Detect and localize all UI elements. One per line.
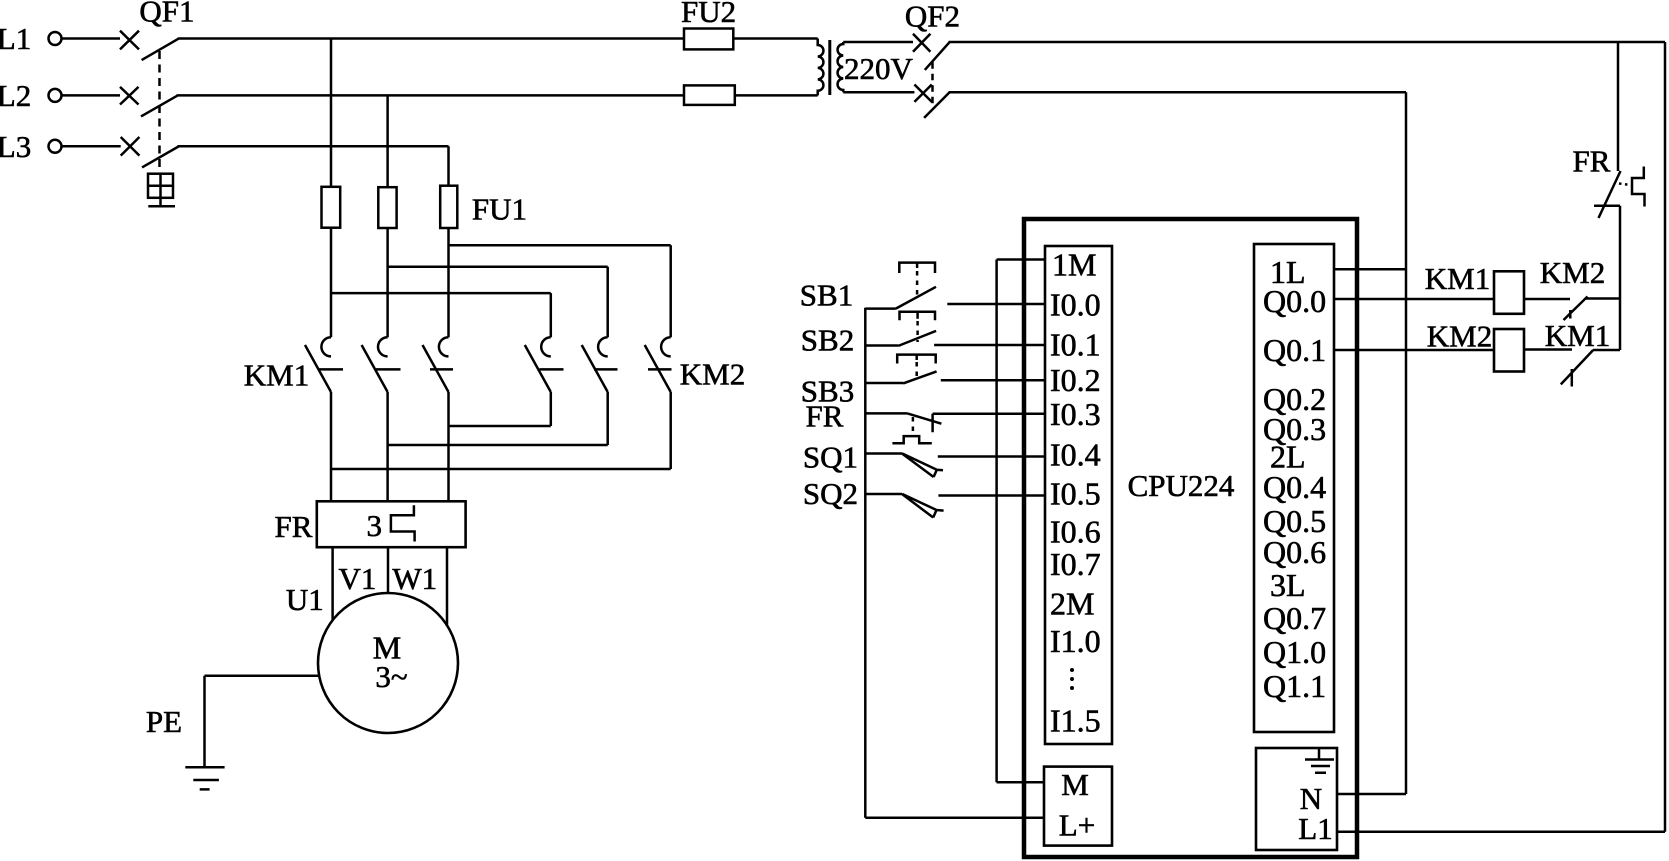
svg-text:KM2: KM2 — [1427, 319, 1492, 354]
svg-text:I0.1: I0.1 — [1050, 327, 1101, 363]
svg-text:I0.4: I0.4 — [1050, 436, 1101, 472]
svg-text:I0.2: I0.2 — [1050, 362, 1101, 398]
svg-text:L1: L1 — [0, 21, 31, 56]
svg-text:I1.5: I1.5 — [1050, 703, 1101, 739]
svg-text:FU1: FU1 — [472, 192, 527, 227]
svg-text:KM1: KM1 — [1545, 318, 1610, 353]
svg-text:2M: 2M — [1050, 585, 1094, 621]
svg-text:3L: 3L — [1270, 567, 1306, 603]
svg-text:Q0.1: Q0.1 — [1263, 332, 1326, 368]
svg-text:QF2: QF2 — [905, 0, 960, 34]
svg-text:L+: L+ — [1059, 808, 1095, 843]
svg-text:KM2: KM2 — [1540, 255, 1605, 290]
svg-text:I1.0: I1.0 — [1050, 623, 1101, 659]
svg-text:Q1.1: Q1.1 — [1263, 668, 1326, 704]
svg-text:3~: 3~ — [375, 659, 407, 694]
svg-text:M: M — [1061, 767, 1089, 802]
svg-text:Q0.7: Q0.7 — [1263, 600, 1326, 636]
svg-text:1M: 1M — [1052, 247, 1096, 283]
svg-text:KM1: KM1 — [1425, 261, 1490, 296]
svg-text:I0.3: I0.3 — [1050, 396, 1101, 432]
svg-text:U1: U1 — [286, 582, 324, 617]
svg-text:3: 3 — [367, 508, 383, 543]
svg-text:SQ2: SQ2 — [803, 476, 858, 511]
svg-text:Q1.0: Q1.0 — [1263, 634, 1326, 670]
svg-text:220V: 220V — [844, 51, 914, 86]
svg-text:QF1: QF1 — [139, 0, 194, 29]
svg-text:FR: FR — [806, 399, 844, 434]
svg-text:SQ1: SQ1 — [803, 440, 858, 475]
svg-text:FU2: FU2 — [681, 0, 736, 29]
svg-text:L1: L1 — [1298, 811, 1332, 846]
svg-text:FR: FR — [275, 509, 313, 544]
svg-text:V1: V1 — [338, 561, 376, 596]
svg-text:W1: W1 — [392, 561, 437, 596]
svg-text:KM2: KM2 — [680, 357, 745, 392]
svg-text:Q0.4: Q0.4 — [1263, 469, 1326, 505]
svg-text:SB2: SB2 — [801, 323, 854, 358]
svg-text:Q0.0: Q0.0 — [1263, 283, 1326, 319]
svg-text:I0.0: I0.0 — [1050, 287, 1101, 323]
svg-text:PE: PE — [146, 704, 182, 739]
svg-text:FR: FR — [1573, 144, 1611, 179]
svg-text:KM1: KM1 — [244, 358, 309, 393]
svg-text:I0.6: I0.6 — [1050, 514, 1101, 550]
svg-text:L3: L3 — [0, 129, 31, 164]
svg-text:SB1: SB1 — [800, 278, 853, 313]
svg-text:I0.7: I0.7 — [1050, 546, 1101, 582]
svg-text:Q0.6: Q0.6 — [1263, 534, 1326, 570]
svg-text:L2: L2 — [0, 78, 31, 113]
svg-text:I0.5: I0.5 — [1050, 476, 1101, 512]
svg-text:CPU224: CPU224 — [1128, 468, 1235, 503]
